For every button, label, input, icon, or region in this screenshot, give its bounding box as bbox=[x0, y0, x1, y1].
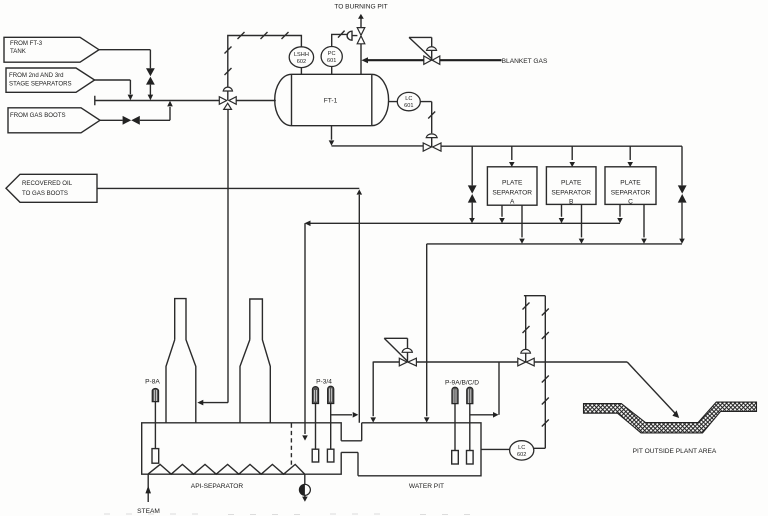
svg-text:PLATE: PLATE bbox=[561, 180, 582, 187]
svg-text:P-3/4: P-3/4 bbox=[316, 379, 332, 386]
svg-text:602: 602 bbox=[517, 452, 526, 458]
svg-text:TANK: TANK bbox=[10, 48, 26, 55]
svg-text:B: B bbox=[569, 199, 574, 206]
svg-text:601: 601 bbox=[404, 103, 413, 109]
svg-text:SEPARATOR: SEPARATOR bbox=[611, 190, 651, 197]
svg-text:601: 601 bbox=[327, 58, 336, 64]
svg-text:API-SEPARATOR: API-SEPARATOR bbox=[191, 483, 244, 490]
svg-text:BLANKET GAS: BLANKET GAS bbox=[502, 58, 548, 65]
svg-text:TO GAS BOOTS: TO GAS BOOTS bbox=[22, 190, 68, 197]
svg-text:PLATE: PLATE bbox=[620, 180, 641, 187]
svg-text:C: C bbox=[628, 199, 633, 206]
svg-text:SEPARATOR: SEPARATOR bbox=[492, 190, 532, 197]
svg-text:LC: LC bbox=[405, 96, 412, 102]
svg-text:TO BURNING PIT: TO BURNING PIT bbox=[334, 4, 387, 11]
svg-text:PIT OUTSIDE PLANT AREA: PIT OUTSIDE PLANT AREA bbox=[633, 448, 717, 455]
svg-text:WATER PIT: WATER PIT bbox=[409, 483, 444, 490]
svg-text:FT-1: FT-1 bbox=[324, 98, 338, 105]
svg-text:P-9A/B/C/D: P-9A/B/C/D bbox=[445, 380, 479, 387]
svg-text:STAGE SEPARATORS: STAGE SEPARATORS bbox=[9, 81, 72, 88]
svg-text:LSHH: LSHH bbox=[294, 52, 309, 58]
svg-text:P-8A: P-8A bbox=[145, 379, 160, 386]
svg-text:PLATE: PLATE bbox=[502, 180, 523, 187]
svg-text:FROM 2nd AND 3rd: FROM 2nd AND 3rd bbox=[9, 72, 64, 79]
svg-text:SEPARATOR: SEPARATOR bbox=[551, 190, 591, 197]
svg-text:PC: PC bbox=[328, 51, 336, 57]
svg-text:A: A bbox=[510, 199, 515, 206]
svg-text:FROM FT-3: FROM FT-3 bbox=[10, 40, 43, 47]
svg-text:RECOVERED OIL: RECOVERED OIL bbox=[22, 180, 73, 187]
svg-text:FROM GAS BOOTS: FROM GAS BOOTS bbox=[10, 112, 66, 119]
svg-text:LC: LC bbox=[518, 445, 525, 451]
svg-text:602: 602 bbox=[297, 59, 306, 65]
